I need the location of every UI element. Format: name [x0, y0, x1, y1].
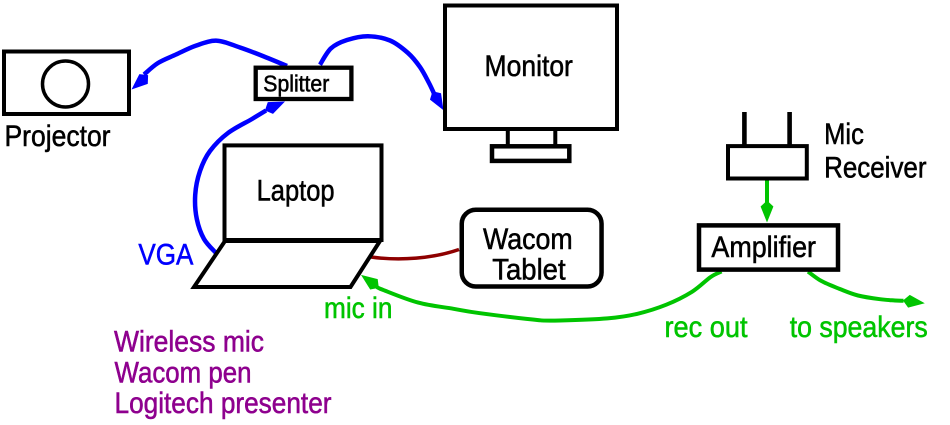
svg-text:mic in: mic in: [324, 292, 392, 325]
svg-text:Wacom: Wacom: [483, 223, 573, 256]
arrowhead to speakers: [902, 294, 925, 310]
wire: VGA splitter to monitor (blue): [320, 36, 437, 99]
svg-text:Wireless mic: Wireless mic: [114, 326, 264, 359]
svg-text:Projector: Projector: [5, 120, 111, 153]
label Mic Receiver: [824, 118, 926, 185]
label Laptop: [257, 175, 335, 208]
label Splitter: [263, 70, 329, 96]
label VGA (blue): [138, 239, 193, 272]
arrowhead at monitor: [427, 88, 449, 113]
svg-text:Splitter: Splitter: [263, 70, 329, 96]
projector box: [4, 52, 129, 115]
splitter box: [256, 68, 352, 99]
wire: amplifier to speakers (green): [808, 272, 904, 301]
svg-text:Mic: Mic: [824, 118, 864, 151]
note: Wireless mic (purple): [114, 326, 264, 359]
arrowhead at amplifier top: [761, 201, 774, 223]
label rec out (green): [665, 311, 749, 344]
laptop screen: [225, 145, 382, 240]
note: Logitech presenter (purple): [115, 387, 332, 420]
note: Wacom pen (purple): [115, 357, 252, 390]
label Projector: [5, 120, 111, 153]
arrowhead at splitter: [262, 96, 287, 117]
wire: wacom tablet cable (dark red): [371, 250, 459, 259]
label to speakers (green): [790, 311, 928, 344]
wire: VGA splitter to projector (blue): [144, 41, 287, 75]
wire: mic receiver to amplifier (green): [765, 179, 769, 207]
label mic in (green): [324, 292, 392, 325]
monitor stand base: [492, 146, 569, 161]
monitor box: [445, 6, 617, 130]
svg-text:Laptop: Laptop: [257, 175, 335, 208]
svg-text:Amplifier: Amplifier: [711, 231, 816, 264]
mic receiver antenna left: [742, 112, 747, 148]
svg-text:Receiver: Receiver: [824, 152, 926, 185]
arrowhead at projector: [127, 70, 152, 94]
wire: amplifier rec out to laptop mic in (green): [376, 272, 722, 321]
projector lens circle: [43, 61, 89, 107]
mic receiver box: [728, 146, 807, 178]
label Monitor: [485, 50, 573, 83]
wacom tablet box: [462, 210, 602, 287]
label Wacom Tablet: [483, 223, 573, 286]
svg-text:to speakers: to speakers: [790, 311, 928, 344]
monitor stand neck: [508, 130, 556, 147]
svg-text:Logitech presenter: Logitech presenter: [115, 387, 332, 420]
arrowhead at laptop mic in: [357, 270, 382, 293]
svg-text:Monitor: Monitor: [485, 50, 573, 83]
svg-text:VGA: VGA: [138, 239, 193, 272]
mic receiver antenna right: [787, 112, 792, 148]
label Amplifier: [711, 231, 816, 264]
wire: VGA laptop to splitter (blue): [195, 111, 266, 254]
laptop keyboard: [194, 241, 380, 287]
amplifier box: [699, 225, 838, 269]
svg-text:rec out: rec out: [665, 311, 749, 344]
svg-text:Wacom pen: Wacom pen: [115, 357, 252, 390]
svg-text:Tablet: Tablet: [492, 253, 566, 286]
